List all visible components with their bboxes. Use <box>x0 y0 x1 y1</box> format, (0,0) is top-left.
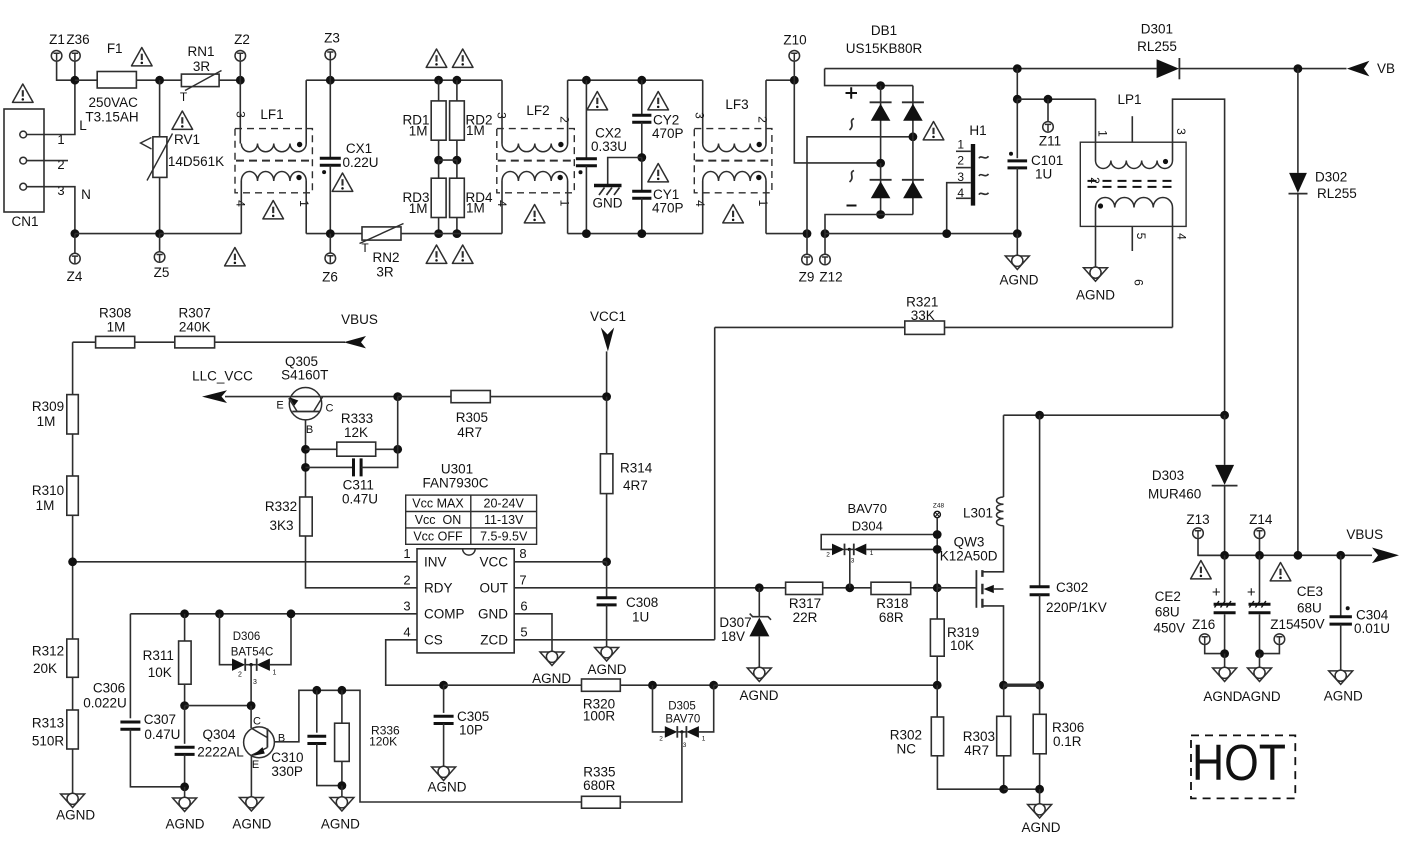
svg-text:OUT: OUT <box>480 580 509 595</box>
svg-text:3R: 3R <box>376 265 394 280</box>
svg-text:AGND: AGND <box>1324 689 1363 704</box>
thermistor RN1 3R <box>181 74 219 87</box>
svg-text:10P: 10P <box>459 723 483 738</box>
svg-text:2: 2 <box>57 157 64 172</box>
svg-text:4: 4 <box>693 200 707 207</box>
capacitor C101 1U <box>1016 99 1018 158</box>
svg-text:Z10: Z10 <box>783 33 806 48</box>
node C302 top <box>1035 411 1044 420</box>
svg-text:68U: 68U <box>1297 601 1322 616</box>
QW3 source wire <box>982 606 1003 685</box>
node R311 top <box>180 609 189 618</box>
wire CN1 pin2 stub <box>27 160 68 162</box>
svg-text:1U: 1U <box>632 610 649 625</box>
svg-text:2: 2 <box>756 116 770 123</box>
LP1 primary winding <box>1096 161 1173 169</box>
svg-text:Z36: Z36 <box>66 32 89 47</box>
wire bottom rail LF2 to LF3 <box>568 233 703 235</box>
svg-text:AGND: AGND <box>587 662 626 677</box>
svg-text:B: B <box>306 424 313 436</box>
svg-text:Z4: Z4 <box>67 269 83 284</box>
node RD2 top <box>453 76 462 85</box>
svg-text:Z11: Z11 <box>1039 134 1061 149</box>
svg-text:0.47U: 0.47U <box>342 492 378 507</box>
LF3 phase dot bottom <box>756 175 761 180</box>
warning triangle above RV1 <box>172 111 193 129</box>
svg-text:INV: INV <box>424 554 447 569</box>
warning triangles above RD1 RD2 <box>426 49 447 67</box>
svg-text:CE3: CE3 <box>1297 584 1323 599</box>
svg-text:Z9: Z9 <box>799 270 815 285</box>
svg-text:D307: D307 <box>719 615 751 630</box>
svg-text:C308: C308 <box>626 595 658 610</box>
wire GND pin6 to AGND <box>514 614 552 652</box>
wire DB1 minus to Z12 node <box>825 215 913 234</box>
wire Q304 base route <box>274 690 581 802</box>
wire Z36 stub <box>74 61 76 80</box>
H1 pin3 line to bottom rail <box>947 183 971 234</box>
node D304 center tap <box>845 583 854 592</box>
svg-text:S4160T: S4160T <box>281 368 328 383</box>
diode D303 MUR460 <box>1224 415 1226 465</box>
svg-text:RV1: RV1 <box>174 132 200 147</box>
svg-text:E: E <box>252 759 259 771</box>
svg-text:RN2: RN2 <box>372 250 399 265</box>
wire R311 to collector node <box>185 705 252 707</box>
ground AGND under Q304 <box>239 797 263 811</box>
node L junction <box>71 76 80 85</box>
svg-text:R310: R310 <box>32 483 64 498</box>
svg-text:470P: 470P <box>652 201 684 216</box>
ground AGND under C308 <box>595 647 619 661</box>
node Z3 junction <box>326 76 335 85</box>
svg-text:680R: 680R <box>583 778 616 793</box>
svg-text:RL255: RL255 <box>1317 186 1357 201</box>
terminal Z2 <box>235 51 246 62</box>
resistor R318 68R <box>871 582 911 594</box>
wire top rail LF1 to LF2 <box>306 79 502 81</box>
wire R307 to VBUS arrow <box>215 341 345 343</box>
svg-text:U301: U301 <box>441 462 473 477</box>
ground AGND pin6 <box>540 651 564 665</box>
diode DB1 D-a <box>880 86 882 164</box>
svg-text:N: N <box>81 187 91 202</box>
wire top rail down to LF2 pin3 <box>501 80 503 143</box>
warning triangle right of CX2 top <box>587 92 608 110</box>
svg-text:4R7: 4R7 <box>623 478 648 493</box>
resistor R307 240K <box>175 336 215 348</box>
node R333 right <box>393 445 402 454</box>
svg-text:CS: CS <box>424 632 443 647</box>
resistor R302 NC <box>936 685 938 717</box>
node VCC pin8 <box>602 557 611 566</box>
LP1 pin4 wire down to R321 line <box>1172 208 1174 328</box>
svg-text:220P/1KV: 220P/1KV <box>1046 600 1107 615</box>
warning triangle above CN1 <box>12 84 33 102</box>
node D304 pin1 tap <box>933 545 942 554</box>
H1 pin2 line <box>956 167 971 169</box>
ground AGND LP1 secondary <box>1095 208 1097 268</box>
ground AGND under C304 <box>1329 670 1353 684</box>
svg-text:T: T <box>361 241 369 255</box>
node R303 bottom <box>999 785 1008 794</box>
svg-text:VCC1: VCC1 <box>590 309 626 324</box>
capacitor CX1 0.22U <box>329 80 331 158</box>
node RD1 top <box>434 76 443 85</box>
wire ZCD riser to R321 row <box>714 327 716 639</box>
terminal Z5 <box>159 234 161 252</box>
svg-text:250VAC: 250VAC <box>89 95 139 110</box>
resistor R308 1M <box>73 341 96 343</box>
wire D301 to VB <box>1179 68 1346 70</box>
svg-text:Z1: Z1 <box>49 32 65 47</box>
node D303 top <box>1220 411 1229 420</box>
svg-text:BAV70: BAV70 <box>847 501 887 516</box>
svg-text:1: 1 <box>297 200 311 207</box>
svg-text:US15KB80R: US15KB80R <box>846 41 923 56</box>
svg-text:1M: 1M <box>37 414 56 429</box>
svg-text:240K: 240K <box>179 320 211 335</box>
node base/R333 <box>301 445 310 454</box>
svg-text:3: 3 <box>403 598 410 613</box>
svg-text:LP1: LP1 <box>1117 92 1141 107</box>
svg-text:5: 5 <box>520 624 527 639</box>
wire LF2 pin1 down <box>567 181 569 234</box>
svg-text:AGND: AGND <box>739 688 778 703</box>
svg-text:Z2: Z2 <box>234 32 250 47</box>
svg-text:VB: VB <box>1377 61 1395 76</box>
svg-text:1M: 1M <box>466 201 485 216</box>
svg-text:2: 2 <box>238 672 242 679</box>
wire D305 center to R335 <box>620 732 682 802</box>
resistor R311 10K <box>184 614 186 641</box>
wire top rail LF2 to LF3 <box>568 79 703 81</box>
node CE2 top <box>1220 551 1229 560</box>
svg-text:R303: R303 <box>963 729 995 744</box>
terminal Z6 <box>329 234 331 254</box>
svg-text:R318: R318 <box>876 596 908 611</box>
svg-text:AGND: AGND <box>999 273 1038 288</box>
LF1 phase dot bottom <box>296 175 301 180</box>
svg-text:R332: R332 <box>265 499 297 514</box>
LF2 phase dot bottom <box>558 175 563 180</box>
svg-text:R309: R309 <box>32 399 64 414</box>
op-amp U301 FAN7930C body <box>417 549 514 653</box>
node CY2 top <box>637 76 646 85</box>
svg-text:CE2: CE2 <box>1155 589 1181 604</box>
wire DC+ rail to D301 <box>825 68 1157 70</box>
capacitor C305 10P <box>443 685 445 713</box>
svg-text:AGND: AGND <box>1021 820 1060 835</box>
resistor RD4 1M <box>456 160 458 178</box>
node R336 top <box>338 686 347 695</box>
svg-text:2: 2 <box>957 154 964 168</box>
wire LF3 pin1 down <box>765 181 767 234</box>
wire RN2 to RD bottoms to LF2 pin4 <box>401 233 502 235</box>
svg-text:3K3: 3K3 <box>269 518 293 533</box>
svg-text:GND: GND <box>478 606 508 621</box>
wire R318 to gate node <box>911 587 938 589</box>
svg-text:Vcc MAX: Vcc MAX <box>412 497 464 511</box>
diode D302 RL255 <box>1297 69 1299 173</box>
svg-text:10K: 10K <box>148 665 172 680</box>
resistor R309 1M <box>72 342 74 394</box>
capacitor C306 0.022U <box>129 614 131 719</box>
svg-text:T: T <box>180 90 188 104</box>
wire R312 to R313 <box>72 677 74 710</box>
wire VCC pin8 <box>514 561 606 563</box>
node D306 left top <box>215 609 224 618</box>
wire COMP pin3 <box>130 613 417 615</box>
svg-text:R312: R312 <box>32 644 64 659</box>
svg-text:RN1: RN1 <box>187 44 214 59</box>
svg-text:AGND: AGND <box>1203 689 1242 704</box>
svg-text:AGND: AGND <box>232 817 271 832</box>
node CY mid junction <box>637 153 646 162</box>
warning triangles below RD3 RD4 <box>426 245 447 263</box>
wire R310 to INV node <box>72 515 74 562</box>
terminal Z11 <box>1047 99 1049 122</box>
QW3 gate wire <box>937 587 976 589</box>
wire DB1 plus output to top DC rail <box>825 69 881 86</box>
svg-text:120K: 120K <box>369 735 397 749</box>
node R305 left <box>393 392 402 401</box>
node CX2 bottom <box>582 229 591 238</box>
node C306/C307 <box>180 782 189 791</box>
svg-text:R305: R305 <box>456 410 488 425</box>
svg-text:Z15: Z15 <box>1270 617 1293 632</box>
earth ground GND <box>594 184 622 187</box>
capacitor C308 1U <box>606 562 608 598</box>
terminal Z3 <box>325 49 336 60</box>
wire F1 to RN1 <box>136 79 181 81</box>
wire CN1 pin1 to L node <box>27 80 75 134</box>
svg-text:1: 1 <box>1096 130 1110 137</box>
node Z11 junction <box>1044 95 1053 104</box>
wire LF1 pin2 up to rail <box>305 80 307 143</box>
svg-text:0.1R: 0.1R <box>1053 734 1082 749</box>
svg-text:12K: 12K <box>344 425 368 440</box>
wire C101 branch <box>1016 69 1018 100</box>
wire bottom rail LF1 pin1 to RN2 <box>306 233 362 235</box>
svg-text:D302: D302 <box>1315 170 1347 185</box>
svg-text:Z48: Z48 <box>933 503 945 510</box>
warning triangle below LF3 <box>723 205 744 223</box>
wire bottom rail LF3 to Z9 <box>766 233 807 235</box>
node DB1 AC2 <box>876 159 885 168</box>
svg-text:D301: D301 <box>1141 22 1173 37</box>
resistor R305 4R7 <box>398 396 451 398</box>
wire aux node to LP1 pin1 <box>1017 98 1095 100</box>
HOT label box <box>1191 735 1295 798</box>
node CE2 bottom <box>1220 649 1229 658</box>
DB1 AC squiggle bottom <box>850 171 855 183</box>
LF3 phase dot top <box>757 142 762 147</box>
svg-text:RDY: RDY <box>424 580 453 595</box>
wire VCC1 node to R314 <box>606 397 608 454</box>
wire LF1 pin4 from bottom rail <box>240 181 242 234</box>
wire mid link <box>439 159 457 161</box>
node RD2/RD4 mid <box>453 156 462 165</box>
resistor R336 120K <box>341 690 343 723</box>
wire DB1 top link <box>881 85 913 87</box>
common-mode choke LF2 <box>497 129 575 193</box>
common-mode choke LF1 <box>235 129 312 193</box>
svg-text:AGND: AGND <box>56 808 95 823</box>
svg-text:LLC_VCC: LLC_VCC <box>192 369 253 384</box>
svg-text:6: 6 <box>520 598 527 613</box>
node R311/C307 <box>180 701 189 710</box>
ground AGND under D307 <box>747 667 771 681</box>
node OUT/D307 <box>755 583 764 592</box>
wire RN1 to Z2 <box>219 79 240 81</box>
svg-text:5: 5 <box>1134 233 1148 240</box>
DB1 minus mark <box>847 205 857 207</box>
wire rail to R319 bottom <box>714 684 938 686</box>
svg-text:R308: R308 <box>99 306 131 321</box>
svg-text:Z3: Z3 <box>324 31 340 46</box>
svg-text:+: + <box>1247 584 1256 601</box>
warning triangle above CY1 <box>648 164 669 182</box>
diode DB1 D-c <box>880 163 882 214</box>
LP1 pin1 wire <box>1095 99 1097 160</box>
svg-text:6: 6 <box>1132 279 1146 286</box>
net arrow VB <box>1347 61 1370 77</box>
svg-text:20-24V: 20-24V <box>484 497 525 511</box>
node CX2 top <box>582 76 591 85</box>
node RV1 bottom <box>155 229 164 238</box>
svg-text:2: 2 <box>1088 177 1102 184</box>
svg-text:D305: D305 <box>668 701 696 713</box>
wire Z1 down <box>57 61 75 80</box>
wire R303 to R306 bottom <box>1004 788 1040 790</box>
svg-text:2: 2 <box>659 736 663 743</box>
svg-text:CX1: CX1 <box>346 141 372 156</box>
node VCC aux junction <box>1013 95 1022 104</box>
net arrow VBUS left <box>344 336 367 348</box>
warning triangle below CX1 <box>332 173 353 191</box>
svg-text:0.47U: 0.47U <box>144 727 180 742</box>
svg-text:AGND: AGND <box>427 780 466 795</box>
svg-text:R317: R317 <box>789 596 821 611</box>
svg-text:C310: C310 <box>271 750 303 765</box>
svg-text:E: E <box>276 400 283 412</box>
H1 tilde marks <box>979 156 989 158</box>
svg-text:8: 8 <box>519 546 526 561</box>
svg-text:C307: C307 <box>144 712 176 727</box>
LP1 secondary winding <box>1096 198 1173 208</box>
wire LF2 pin4 up from rail <box>501 181 503 234</box>
wire Q304 emitter down <box>250 755 252 797</box>
H1 pin1 line <box>956 150 971 152</box>
wire top rail LF3 to Z10 <box>766 79 794 81</box>
wire C305 to R320 <box>444 684 582 686</box>
terminal Z12 <box>824 234 826 255</box>
wire L rail to F1 <box>75 79 97 81</box>
warning triangle below LF2 <box>524 205 545 223</box>
wire CN1 pin3 to N rail <box>27 187 75 234</box>
node D305 right <box>709 681 718 690</box>
capacitor C304 0.01U <box>1340 555 1342 616</box>
svg-text:1: 1 <box>756 200 770 207</box>
wire CY mid to GND <box>608 158 642 185</box>
svg-text:68R: 68R <box>879 610 904 625</box>
svg-text:11-13V: 11-13V <box>484 513 524 527</box>
capacitor CE3 68U 450V <box>1259 555 1261 601</box>
node CE3 bottom <box>1255 649 1264 658</box>
wire source rail thick <box>1004 684 1040 687</box>
svg-text:BAV70: BAV70 <box>665 714 700 726</box>
node RD1/RD3 mid <box>434 156 443 165</box>
svg-text:1: 1 <box>702 736 706 743</box>
node D305 left <box>648 681 657 690</box>
svg-text:+: + <box>1212 584 1221 601</box>
node DB1 plus <box>876 81 885 90</box>
LF2 phase dot top <box>558 142 563 147</box>
node H1 pin3 rail <box>942 229 951 238</box>
node Z10 junction <box>790 76 799 85</box>
wire Z48 down to gate node <box>936 518 938 588</box>
svg-text:R302: R302 <box>890 728 922 743</box>
DB1 AC squiggle top <box>850 119 855 131</box>
wire D304 center to R317/R318 node <box>849 549 851 587</box>
LP1 core dashes <box>1088 181 1174 187</box>
wire R308 to R307 <box>135 341 175 343</box>
ground AGND under C307 <box>184 787 186 798</box>
resistor R303 4R7 <box>1003 685 1005 716</box>
svg-text:100R: 100R <box>583 709 616 724</box>
node Z2 junction <box>236 76 245 85</box>
node D302 branch <box>1294 64 1303 73</box>
svg-text:F1: F1 <box>107 41 123 56</box>
svg-text:C306: C306 <box>93 681 125 696</box>
svg-text:BAT54C: BAT54C <box>231 647 274 659</box>
DB1 plus mark <box>846 87 858 99</box>
resistor R317 22R <box>786 582 823 594</box>
svg-text:20K: 20K <box>33 661 57 676</box>
resistor RD2 1M <box>456 80 458 101</box>
ground AGND under CE3 <box>1259 654 1261 668</box>
node RD3 bottom <box>434 229 443 238</box>
wire R309 to R310 <box>72 434 74 476</box>
svg-text:Z5: Z5 <box>154 265 170 280</box>
svg-text:R311: R311 <box>143 648 174 663</box>
wire drain top rail <box>1004 414 1225 416</box>
svg-text:3: 3 <box>57 183 64 198</box>
wire R314 to VCC pin node <box>606 494 608 562</box>
node C101 branch top <box>1013 64 1022 73</box>
svg-text:LF2: LF2 <box>526 103 549 118</box>
wire Z10 node to bridge AC2 input <box>794 80 880 163</box>
svg-text:Z13: Z13 <box>1186 512 1209 527</box>
node C305 top <box>439 681 448 690</box>
wire Z3 stub <box>329 60 331 80</box>
svg-text:2: 2 <box>558 116 572 123</box>
wire bottom rail RV1 to LF1 pin4 <box>160 233 242 235</box>
wire Q305 base down <box>305 420 307 497</box>
wire LLC_VCC to Q305 <box>225 396 290 398</box>
svg-text:R314: R314 <box>620 461 653 476</box>
resistor R335 680R <box>582 796 621 808</box>
svg-text:22R: 22R <box>793 610 818 625</box>
wire D306 center to collector node <box>250 665 252 706</box>
svg-text:450V: 450V <box>1293 617 1325 632</box>
svg-text:LF1: LF1 <box>260 107 283 122</box>
wire R332 to RDY pin <box>306 536 418 588</box>
warning triangle near F1 <box>132 48 153 66</box>
node RD4 bottom <box>453 229 462 238</box>
svg-text:AGND: AGND <box>1242 689 1281 704</box>
